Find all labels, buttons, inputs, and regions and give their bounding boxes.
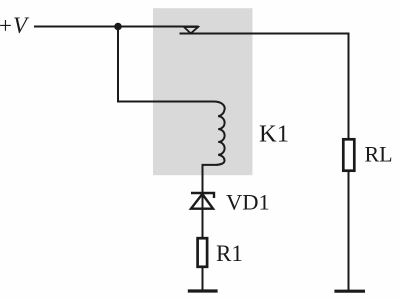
relay body K1 (shaded box) <box>153 8 253 175</box>
svg-text:K1: K1 <box>259 121 289 148</box>
ground (right) <box>334 290 365 293</box>
node junction dot <box>114 23 122 31</box>
resistor R1 body <box>198 238 208 267</box>
relay contact triangle <box>184 27 198 33</box>
svg-text:R1: R1 <box>216 241 243 266</box>
ground (left) <box>188 289 218 292</box>
inductor coil K1 <box>203 102 225 194</box>
wire R1 to ground <box>202 268 204 290</box>
wire junction down to coil <box>118 27 214 102</box>
diode VD1 triangle <box>191 194 213 209</box>
wire diode to R1 <box>202 192 204 237</box>
svg-text:RL: RL <box>365 142 393 167</box>
resistor RL body <box>343 139 354 170</box>
diode VD1 cathode bar (zener) <box>191 193 214 198</box>
wire contact to RL <box>180 34 349 140</box>
wire +V to contact <box>34 26 199 28</box>
svg-text:VD1: VD1 <box>226 190 270 215</box>
svg-text:+V: +V <box>0 13 30 38</box>
wire RL to ground <box>348 171 350 290</box>
